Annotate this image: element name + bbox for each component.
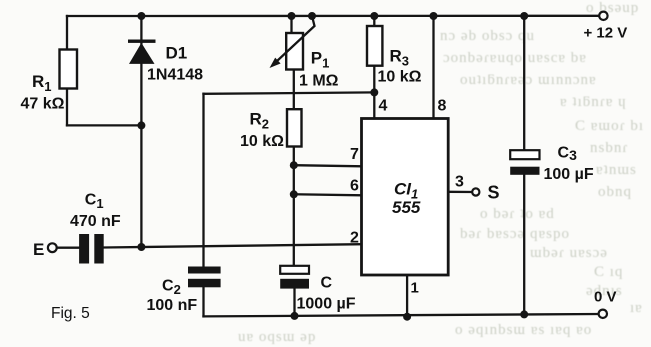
wire pin4 [373,92,375,118]
svg-text:C ɐɯoɾ bı: C ɐɯoɾ bı [575,118,644,134]
svg-text:E: E [33,240,44,259]
svg-text:ɐʇnɯs: ɐʇnɯs [596,162,637,178]
svg-text:100 nF: 100 nF [147,297,198,314]
svg-text:C3: C3 [558,145,578,164]
svg-text:4: 4 [379,98,388,115]
wire pin6 [294,194,362,195]
wire reset line [204,92,375,93]
capacitor C1 [79,234,104,264]
svg-text:ɔonbəɾɐuqo uɐscɐ bɐ: ɔonbəɾɐuqo uɐscɐ bɐ [443,50,587,66]
node top wiper [308,12,316,20]
resistor R2 [287,109,302,146]
capacitor C3 [510,150,539,175]
potentiometer P1 [270,16,315,70]
svg-text:555: 555 [392,198,421,217]
wire pin1 [406,275,408,317]
node top pin8 [430,12,438,20]
wire R2 to C chain [293,147,295,266]
wire C bottom [293,289,295,317]
svg-text:47 kΩ: 47 kΩ [21,96,65,113]
wire P1 wiper [274,16,315,64]
terminal S [472,188,479,195]
wire top rail [67,15,599,17]
wire P1 top [290,16,292,33]
svg-text:1000 µF: 1000 µF [297,296,356,313]
wire P1 bottom to R2 [293,70,295,110]
svg-text:uɐ oqsɯ əp: uɐ oqsɯ əp [238,329,316,345]
svg-text:+ 12 V: + 12 V [584,25,628,42]
wire R1 to D1 node [67,124,141,126]
node bottom C3 [520,310,528,318]
node top D1 [137,12,145,20]
wire pin8 [432,16,434,119]
wire left vertical to C2 [202,94,204,267]
diode D1 [128,40,156,64]
svg-text:obnq: obnq [598,184,632,200]
node pin6 [290,190,298,198]
wire pin7 [294,165,362,166]
svg-text:C ıq: C ıq [594,264,623,280]
svg-text:ouʇıƃnɾɐəɔ ɯınnɔnɐ: ouʇıƃnɾɐəɔ ɯınnɔnɐ [460,72,597,88]
svg-text:nsbnɾ: nsbnɾ [590,140,628,156]
svg-text:o bəɾ ʇo ɐd: o bəɾ ʇo ɐd [480,206,555,222]
svg-text:3: 3 [455,174,464,191]
svg-text:bəɾ bɐsɔə qɐspo: bəɾ bɐsɔə qɐspo [460,226,570,242]
wire C2 bottom [202,287,204,316]
wire E line to pin2 [57,247,79,249]
node bottom pin1 [403,313,411,321]
svg-text:Fig. 5: Fig. 5 [51,305,90,322]
svg-text:8: 8 [438,98,447,115]
capacitor C2 [188,267,221,288]
svg-text:nɔ əb obsɔ qu: nɔ əb obsɔ qu [440,28,535,44]
wire C3 branch top [523,16,525,150]
svg-text:0 V: 0 V [594,289,617,306]
terminal 0V [599,310,607,318]
node reset R3 [370,88,378,96]
resistor R3 [367,26,382,66]
svg-text:o bsəup: o bsəup [586,0,639,16]
svg-text:1 MΩ: 1 MΩ [299,73,339,90]
terminal E [48,243,57,252]
wire bottom rail [204,314,599,316]
node top R3 [370,12,378,20]
node E D1 [137,243,145,251]
wire R1 top [66,16,68,50]
wire R1 bottom [66,89,68,126]
svg-text:10 kΩ: 10 kΩ [378,69,422,86]
svg-text:470 nF: 470 nF [70,213,121,230]
svg-text:10 kΩ: 10 kΩ [240,133,284,150]
svg-text:7: 7 [350,146,359,163]
node top C3 [520,12,528,20]
svg-text:ɯbəɾ uɐsɔə: ɯbəɾ uɐsɔə [530,245,608,261]
terminal +12V [599,12,607,20]
node pin7 [290,161,298,169]
capacitor C 1000uF [280,266,309,289]
svg-text:ɐ ʇıƃnɾɐ ɥ: ɐ ʇıƃnɾɐ ɥ [560,94,627,110]
svg-text:C: C [321,275,333,292]
wire R3 bottom [373,66,375,93]
svg-text:100 µF: 100 µF [544,166,594,183]
svg-text:1: 1 [411,280,419,297]
svg-text:6: 6 [350,178,359,195]
svg-text:o əqınbsɯ ɐs ıɐq ɐo: o əqınbsɯ ɐs ıɐq ɐo [455,322,592,338]
svg-text:S: S [488,183,500,203]
svg-text:ıɐ: ıɐ [630,300,643,316]
svg-text:1N4148: 1N4148 [147,67,203,84]
wire pin3 [448,191,472,193]
op IC CI1 555 [362,119,449,276]
svg-text:2: 2 [350,230,359,247]
node bottom C [291,312,299,320]
wire D1 branch [140,16,142,247]
resistor R1 [60,50,78,89]
node top P1 [288,12,296,20]
wire R3 top [373,16,375,26]
node R1 D1 [137,121,145,129]
wire C3 branch bottom [523,175,525,314]
bleed-through text background [238,0,644,345]
svg-text:D1: D1 [166,44,188,63]
